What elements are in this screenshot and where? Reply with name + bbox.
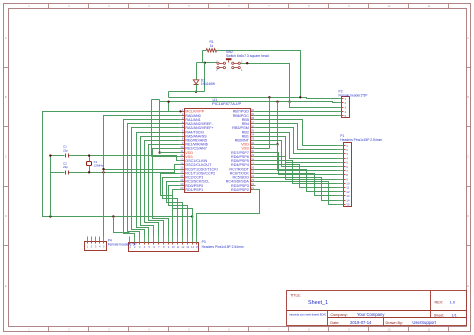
svg-text:14: 14 [191, 245, 194, 249]
svg-text:REV:: REV: [435, 301, 444, 305]
svg-text:RD1/PSP1: RD1/PSP1 [185, 188, 203, 192]
svg-text:D: D [5, 214, 7, 218]
svg-text:RD2/PSP2: RD2/PSP2 [231, 188, 249, 192]
svg-text:1N4148W: 1N4148W [201, 82, 215, 86]
svg-text:22p: 22p [63, 148, 68, 152]
svg-text:Sheet:: Sheet: [434, 313, 444, 317]
svg-text:E: E [467, 284, 469, 288]
svg-text:1k: 1k [210, 44, 214, 48]
svg-text:12MHz: 12MHz [94, 164, 104, 168]
svg-text:D: D [467, 214, 469, 218]
svg-text:1/1: 1/1 [452, 313, 457, 317]
svg-text:B: B [467, 95, 469, 99]
svg-text:E: E [5, 284, 7, 288]
svg-text:21: 21 [251, 186, 255, 190]
svg-text:Female header1*5P: Female header1*5P [108, 243, 137, 247]
svg-text:TITLE:: TITLE: [290, 294, 301, 298]
svg-text:Date:: Date: [330, 321, 339, 325]
svg-text:Drawn By:: Drawn By: [386, 321, 404, 325]
svg-text:12: 12 [181, 245, 184, 249]
svg-text:2019-07-14: 2019-07-14 [350, 320, 372, 325]
svg-text:A: A [5, 36, 7, 40]
svg-text:P3: P3 [202, 240, 206, 244]
svg-text:15: 15 [346, 202, 350, 206]
svg-text:15: 15 [196, 245, 199, 249]
svg-text:A: A [467, 36, 469, 40]
svg-text:20: 20 [180, 186, 184, 190]
svg-text:UserSupport: UserSupport [412, 320, 436, 325]
svg-text:C: C [467, 155, 469, 159]
svg-text:Female header1*5P: Female header1*5P [339, 93, 368, 97]
svg-text:Headers Pins1x15P 2.54mm: Headers Pins1x15P 2.54mm [340, 138, 382, 142]
svg-text:easyeda.com (web-based EDA): easyeda.com (web-based EDA) [289, 313, 326, 317]
svg-text:Your Company: Your Company [357, 312, 385, 317]
svg-text:B: B [5, 95, 7, 99]
svg-text:Headers Pins1x15P 2.54mm: Headers Pins1x15P 2.54mm [202, 245, 244, 249]
svg-text:10: 10 [172, 245, 175, 249]
svg-text:22p: 22p [63, 165, 68, 169]
svg-text:Sheet_1: Sheet_1 [308, 300, 328, 306]
svg-text:Switch 6x6x7.3 square head: Switch 6x6x7.3 square head [226, 54, 269, 58]
svg-text:13: 13 [186, 245, 189, 249]
svg-text:C: C [5, 155, 7, 159]
svg-text:1.0: 1.0 [450, 300, 456, 305]
svg-text:Company:: Company: [330, 313, 347, 317]
